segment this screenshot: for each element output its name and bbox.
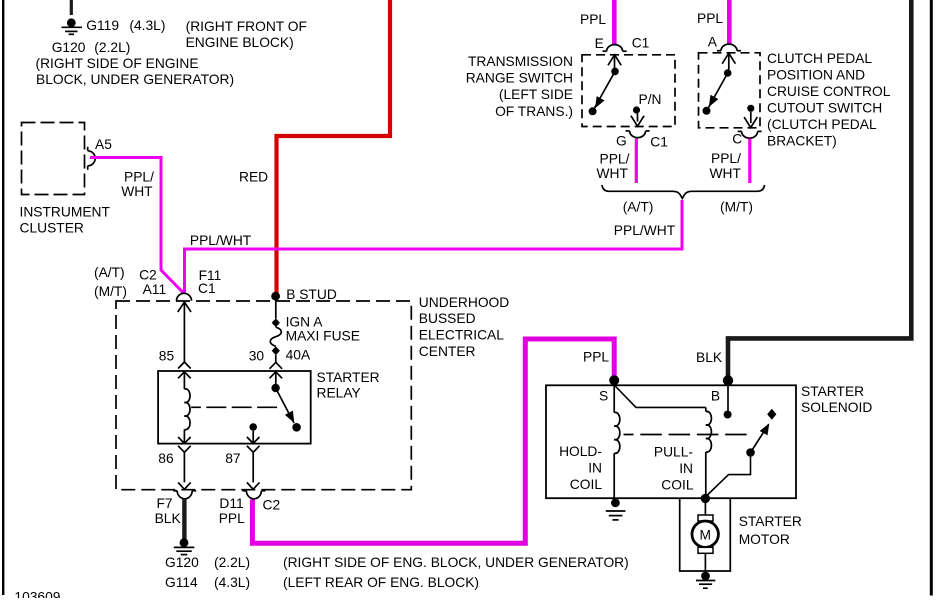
svg-text:103609: 103609 bbox=[14, 590, 60, 605]
svg-text:PPL/: PPL/ bbox=[600, 152, 630, 167]
pin F7 connector bbox=[173, 491, 196, 499]
arrow at relay pin 85 upper bbox=[178, 362, 191, 369]
svg-text:(2.2L): (2.2L) bbox=[214, 555, 250, 570]
label PPL/ WHT left pair bbox=[597, 152, 630, 181]
node B contact bbox=[724, 411, 732, 419]
svg-text:C1: C1 bbox=[650, 135, 668, 150]
label F7 BLK bbox=[155, 496, 182, 526]
switch blade relay bbox=[276, 388, 299, 425]
svg-text:(4.3L): (4.3L) bbox=[129, 18, 165, 33]
wire C contact to pin C bbox=[750, 112, 752, 123]
label E bbox=[595, 36, 604, 51]
svg-text:(2.2L): (2.2L) bbox=[94, 40, 130, 55]
pin C connector bbox=[738, 131, 762, 138]
label (A/T) bbox=[623, 200, 654, 215]
instrument cluster box bbox=[22, 123, 85, 195]
svg-text:POSITION AND: POSITION AND bbox=[767, 68, 865, 83]
label PPL/ WHT right pair bbox=[710, 151, 742, 181]
wire PPL to transmission range switch bbox=[612, 0, 617, 45]
label A5 bbox=[95, 137, 112, 152]
svg-text:PPL/WHT: PPL/WHT bbox=[190, 233, 252, 248]
svg-text:M: M bbox=[699, 528, 711, 543]
svg-text:CLUSTER: CLUSTER bbox=[20, 221, 84, 236]
label HOLD- IN COIL bbox=[559, 444, 602, 492]
wire BLK from F7 to ground bbox=[182, 499, 186, 540]
svg-text:(4.3L): (4.3L) bbox=[214, 575, 250, 590]
wire P/N to pin G bbox=[637, 114, 639, 122]
svg-text:IN: IN bbox=[588, 461, 602, 476]
label STARTER SOLENOID bbox=[801, 384, 872, 415]
svg-text:MAXI FUSE: MAXI FUSE bbox=[286, 329, 360, 344]
label A bbox=[708, 35, 718, 50]
arrow at relay pin 30 lower bbox=[270, 372, 283, 379]
label (RIGHT SIDE OF ENG. BLOCK, UNDER GENERATOR) bbox=[283, 555, 629, 570]
arrow at UBEC bottom F7 bbox=[178, 482, 191, 489]
svg-text:C1: C1 bbox=[632, 36, 650, 51]
label PPL/ WHT A5 wire bbox=[121, 170, 154, 199]
label 103609 bbox=[14, 590, 60, 605]
pin F11 connector C1 bbox=[177, 293, 192, 301]
svg-text:G120: G120 bbox=[52, 40, 86, 55]
pin E connector C1 bbox=[603, 45, 627, 52]
svg-text:IN: IN bbox=[679, 461, 693, 476]
svg-text:PPL: PPL bbox=[697, 11, 723, 26]
arrow relay 86 inner bbox=[178, 437, 191, 443]
wire E to contact bbox=[614, 55, 616, 68]
starter relay box bbox=[158, 371, 311, 444]
svg-text:86: 86 bbox=[158, 451, 174, 466]
wire PPL/WHT from G bbox=[635, 138, 638, 183]
relay coil bbox=[184, 372, 190, 443]
border right frame bbox=[930, 0, 933, 596]
pin D11 connector C2 bbox=[242, 491, 265, 499]
node clutch switch common bbox=[724, 69, 732, 77]
node trans switch common bbox=[611, 68, 619, 76]
svg-text:C: C bbox=[732, 132, 742, 147]
pin A5 connector bbox=[88, 147, 96, 170]
label INSTRUMENT CLUSTER bbox=[20, 204, 111, 235]
svg-text:PULL-: PULL- bbox=[654, 445, 693, 460]
solenoid switch blade bbox=[751, 421, 774, 453]
svg-text:RED: RED bbox=[239, 170, 268, 185]
svg-text:D11: D11 bbox=[219, 496, 243, 511]
svg-text:HOLD-: HOLD- bbox=[559, 444, 602, 459]
svg-text:CRUISE CONTROL: CRUISE CONTROL bbox=[767, 84, 891, 99]
svg-text:30: 30 bbox=[249, 349, 265, 364]
svg-text:(RIGHT SIDE OF ENG. BLOCK, UND: (RIGHT SIDE OF ENG. BLOCK, UNDER GENERAT… bbox=[283, 555, 629, 570]
label C1 top bbox=[632, 36, 650, 51]
label UNDERHOOD BUSSED ELECTRICAL CENTER bbox=[419, 295, 509, 359]
svg-text:F7: F7 bbox=[157, 496, 173, 511]
svg-text:COIL: COIL bbox=[661, 478, 694, 493]
svg-text:CLUTCH PEDAL: CLUTCH PEDAL bbox=[767, 51, 872, 66]
svg-text:(RIGHT FRONT OF: (RIGHT FRONT OF bbox=[186, 19, 307, 34]
wire 87 down bbox=[252, 452, 254, 482]
label RED bbox=[239, 170, 268, 185]
wire A to contact bbox=[728, 54, 730, 70]
svg-text:87: 87 bbox=[225, 451, 240, 466]
ground G120/G114 bbox=[174, 538, 195, 554]
label PPL left bbox=[580, 12, 606, 27]
wire RED battery feed bbox=[277, 0, 391, 294]
motor brush top bbox=[698, 515, 713, 521]
label B STUD bbox=[286, 287, 337, 302]
svg-text:C2: C2 bbox=[139, 268, 157, 283]
label G120 (2.2L) bbox=[52, 40, 131, 55]
label BLK bbox=[696, 350, 723, 365]
svg-text:ELECTRICAL: ELECTRICAL bbox=[419, 328, 504, 343]
arrow into UBEC at F11 bbox=[178, 302, 191, 312]
wire B STUD to fuse bbox=[275, 301, 277, 319]
arrow at UBEC bottom D11 bbox=[247, 482, 260, 489]
svg-text:A: A bbox=[708, 35, 718, 50]
svg-text:G119: G119 bbox=[86, 18, 119, 33]
svg-text:A11: A11 bbox=[143, 282, 167, 297]
label S bbox=[599, 389, 608, 404]
hold-in coil bbox=[614, 385, 620, 498]
svg-text:PPL/: PPL/ bbox=[124, 170, 154, 185]
label (M/T) A11 bbox=[94, 282, 166, 299]
svg-text:S: S bbox=[599, 389, 608, 404]
node relay NO contact bbox=[292, 423, 301, 432]
svg-text:85: 85 bbox=[159, 349, 175, 364]
svg-text:BLK: BLK bbox=[696, 350, 723, 365]
svg-text:PPL: PPL bbox=[583, 350, 609, 365]
pull-in coil bbox=[706, 407, 712, 494]
svg-text:G120: G120 bbox=[165, 555, 199, 570]
label STARTER MOTOR bbox=[739, 514, 802, 547]
svg-text:G: G bbox=[616, 134, 627, 149]
wire motor to ground bbox=[704, 553, 706, 573]
svg-text:RELAY: RELAY bbox=[317, 386, 361, 401]
starter motor frame bbox=[680, 498, 731, 571]
label IGN A MAXI FUSE 40A bbox=[286, 315, 360, 363]
node C contact bbox=[747, 105, 754, 112]
motor M circle bbox=[692, 521, 718, 547]
arrow relay 87 inner bbox=[247, 437, 260, 443]
node pin S bbox=[609, 375, 619, 385]
label B bbox=[711, 389, 720, 404]
node pin B bbox=[723, 375, 733, 385]
svg-text:STARTER: STARTER bbox=[739, 514, 802, 529]
pin A connector bbox=[717, 44, 741, 51]
arrow relay 86 outer bbox=[178, 446, 191, 453]
relay dashed link bbox=[191, 406, 279, 408]
node B STUD bbox=[271, 292, 280, 301]
svg-text:(M/T): (M/T) bbox=[720, 200, 753, 215]
svg-text:RANGE SWITCH: RANGE SWITCH bbox=[466, 71, 573, 86]
label 86 bbox=[158, 451, 174, 466]
solenoid switch diamond contact bbox=[767, 409, 776, 420]
label G120 (2.2L) bottom bbox=[165, 555, 250, 570]
fuse IGN A MAXI FUSE 40A bbox=[270, 318, 281, 355]
svg-text:BLK: BLK bbox=[155, 511, 182, 526]
svg-text:CUTOUT SWITCH: CUTOUT SWITCH bbox=[767, 101, 882, 116]
starter solenoid box bbox=[546, 385, 796, 498]
wire PPL from D11 to solenoid S bbox=[252, 339, 614, 543]
svg-text:PPL/: PPL/ bbox=[711, 151, 741, 166]
svg-text:(LEFT SIDE: (LEFT SIDE bbox=[499, 87, 573, 102]
label PPL right bbox=[697, 11, 723, 26]
svg-text:PPL/WHT: PPL/WHT bbox=[614, 223, 676, 238]
label 85 bbox=[159, 349, 175, 364]
arrow out of switch C bbox=[744, 117, 757, 128]
node solenoid pivot bbox=[746, 448, 755, 457]
switch blade clutch pedal bbox=[703, 73, 728, 115]
node solenoid output bbox=[701, 494, 710, 503]
label C bbox=[732, 132, 742, 147]
wire 85 feed bbox=[183, 302, 185, 362]
switch blade transmission range bbox=[589, 71, 615, 115]
svg-text:(A/T): (A/T) bbox=[94, 265, 125, 280]
svg-text:A5: A5 bbox=[95, 137, 112, 152]
svg-text:(A/T): (A/T) bbox=[623, 200, 654, 215]
svg-text:B STUD: B STUD bbox=[286, 287, 337, 302]
label (LEFT REAR OF ENG. BLOCK) bbox=[283, 575, 479, 590]
svg-text:SOLENOID: SOLENOID bbox=[801, 400, 872, 415]
svg-text:WHT: WHT bbox=[710, 166, 742, 181]
wire S to pull-in coil bbox=[614, 385, 706, 407]
brace A/T M/T bbox=[602, 185, 765, 198]
node relay 87 contact bbox=[249, 423, 257, 431]
svg-text:(RIGHT SIDE OF ENGINE: (RIGHT SIDE OF ENGINE bbox=[36, 56, 199, 71]
svg-text:(LEFT REAR OF ENG. BLOCK): (LEFT REAR OF ENG. BLOCK) bbox=[283, 575, 479, 590]
ground hold-in coil bbox=[606, 498, 626, 520]
svg-text:ENGINE BLOCK): ENGINE BLOCK) bbox=[186, 35, 294, 50]
svg-text:UNDERHOOD: UNDERHOOD bbox=[419, 295, 509, 310]
svg-text:WHT: WHT bbox=[597, 166, 629, 181]
label (M/T) bbox=[720, 200, 753, 215]
label PPL/WHT left bbox=[190, 233, 252, 248]
wire PPL/WHT from C bbox=[748, 139, 751, 183]
svg-text:WHT: WHT bbox=[121, 184, 153, 199]
wire pivot to motor node bbox=[706, 457, 751, 497]
svg-text:C1: C1 bbox=[198, 281, 216, 296]
label (RIGHT SIDE OF ENGINE BLOCK, UNDER GENERATOR) bbox=[36, 56, 235, 87]
wire PPL/WHT bus horizontal bbox=[185, 249, 683, 293]
label (A/T) C2 bbox=[94, 265, 157, 283]
svg-text:BRACKET): BRACKET) bbox=[767, 134, 837, 149]
svg-text:E: E bbox=[595, 36, 604, 51]
arrow into switch E bbox=[608, 55, 621, 66]
label 87 bbox=[225, 451, 240, 466]
label CLUTCH PEDAL POSITION AND CRUISE CONTROL CUTOUT SWITCH (CLUTCH PEDAL BRACKET) bbox=[767, 51, 891, 149]
ground G119/G120 bbox=[62, 18, 83, 34]
wire 87 contact to box edge bbox=[252, 431, 254, 444]
svg-text:C2: C2 bbox=[263, 498, 281, 513]
label C2 bbox=[263, 498, 281, 513]
border left frame bbox=[2, 0, 4, 595]
svg-text:(CLUTCH PEDAL: (CLUTCH PEDAL bbox=[767, 117, 877, 132]
wire B to contact bbox=[727, 385, 729, 411]
node P/N contact bbox=[633, 106, 640, 113]
solenoid dashed link bbox=[624, 434, 748, 436]
svg-text:40A: 40A bbox=[286, 348, 311, 363]
label (RIGHT FRONT OF ENGINE BLOCK) bbox=[186, 19, 307, 50]
label TRANSMISSION RANGE SWITCH (LEFT SIDE OF TRANS.) bbox=[466, 54, 573, 119]
svg-text:P/N: P/N bbox=[639, 92, 662, 107]
svg-text:BLOCK, UNDER GENERATOR): BLOCK, UNDER GENERATOR) bbox=[36, 72, 234, 87]
wire PPL/WHT from brace bbox=[681, 200, 684, 251]
svg-text:MOTOR: MOTOR bbox=[739, 532, 790, 547]
svg-text:INSTRUMENT: INSTRUMENT bbox=[20, 204, 111, 219]
node relay common bbox=[271, 384, 279, 392]
label F11 C1 bbox=[198, 268, 221, 296]
arrow at relay pin 30 upper bbox=[270, 362, 283, 369]
label PPL at S bbox=[583, 350, 609, 365]
arrow at relay pin 85 lower bbox=[178, 372, 191, 379]
arrow out of switch G bbox=[631, 116, 644, 127]
wire PPL/WHT from A5 bbox=[90, 158, 184, 294]
svg-text:STARTER: STARTER bbox=[801, 384, 864, 399]
wire PPL to clutch switch bbox=[727, 0, 732, 45]
wire node to motor bbox=[704, 503, 706, 515]
label D11 PPL bbox=[219, 496, 245, 526]
svg-text:BUSSED: BUSSED bbox=[419, 311, 476, 326]
svg-text:STARTER: STARTER bbox=[317, 370, 380, 385]
label 30 bbox=[249, 349, 265, 364]
svg-text:IGN A: IGN A bbox=[286, 315, 324, 330]
svg-text:TRANSMISSION: TRANSMISSION bbox=[468, 54, 573, 69]
label G bbox=[616, 134, 627, 149]
svg-text:OF TRANS.): OF TRANS.) bbox=[495, 104, 573, 119]
motor brush bottom bbox=[698, 547, 713, 553]
ground starter motor bbox=[696, 572, 715, 589]
label C1 bottom bbox=[650, 135, 668, 150]
wire 86 down bbox=[183, 452, 185, 482]
clutch pedal switch box bbox=[699, 53, 761, 128]
label G119 (4.3L) bbox=[86, 18, 165, 33]
svg-text:(M/T): (M/T) bbox=[94, 284, 127, 299]
arrow relay 87 outer bbox=[247, 446, 260, 453]
wire BLK to starter solenoid B bbox=[728, 0, 911, 377]
label STARTER RELAY bbox=[317, 370, 380, 401]
svg-text:COIL: COIL bbox=[570, 477, 603, 492]
label PULL- IN COIL bbox=[654, 445, 694, 493]
svg-text:G114: G114 bbox=[165, 575, 198, 590]
svg-text:CENTER: CENTER bbox=[419, 344, 476, 359]
label P/N bbox=[639, 92, 662, 107]
wire BLK ground lead top-left bbox=[70, 0, 73, 15]
wire fuse to pin 30 bbox=[275, 355, 277, 362]
svg-text:PPL: PPL bbox=[219, 511, 245, 526]
arrow into switch A bbox=[722, 53, 735, 64]
wire pin 30 to relay contact bbox=[275, 372, 277, 385]
label G114 (4.3L) bbox=[165, 575, 250, 590]
underhood bussed electrical center box bbox=[116, 301, 411, 490]
svg-text:PPL: PPL bbox=[580, 12, 606, 27]
transmission range switch box bbox=[582, 55, 675, 127]
label PPL/WHT center bbox=[614, 223, 676, 238]
pin G connector C1 bbox=[626, 131, 650, 138]
svg-text:B: B bbox=[711, 389, 720, 404]
